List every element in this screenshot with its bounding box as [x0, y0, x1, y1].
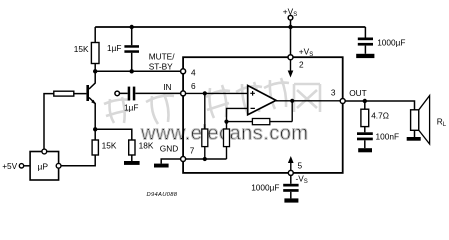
svg-text:OUT: OUT	[349, 88, 367, 98]
pin 5 supply arrow	[290, 162, 292, 170]
junction dot bias resistor	[203, 91, 207, 95]
pin 3	[340, 99, 345, 104]
junction dot rail/+Vs	[288, 25, 292, 29]
transistor Q (mute driver, NPN)	[86, 71, 95, 129]
junction dot mute wire / 15K / collector	[93, 69, 97, 73]
resistor 15K (emitter)	[92, 129, 117, 155]
+5V input terminal	[2, 161, 23, 171]
resistor 4.7ohm (zobel)	[361, 101, 389, 127]
ground (speaker)	[407, 137, 421, 141]
svg-text:7: 7	[190, 146, 195, 156]
svg-text:18K: 18K	[139, 140, 154, 150]
svg-text:15K: 15K	[102, 140, 117, 150]
ground (zobel)	[358, 148, 372, 152]
svg-text:5: 5	[298, 161, 303, 171]
pin 6	[181, 91, 186, 96]
svg-text:ST-BY: ST-BY	[149, 62, 173, 72]
svg-text:GND: GND	[160, 143, 178, 153]
svg-text:µP: µP	[38, 161, 49, 171]
wire pin 7 to ground	[161, 159, 180, 164]
junction dot mute wire / 1uF	[130, 69, 134, 73]
wire uP out to 15K bottom	[61, 155, 95, 166]
svg-text:100nF: 100nF	[376, 131, 400, 141]
resistor internal (feedback to ground)	[224, 122, 230, 159]
capacitor 1000uF (+Vs rail)	[358, 27, 406, 54]
ground (GND pin)	[154, 164, 169, 168]
ground (18K)	[124, 161, 140, 165]
op-amp triangle	[248, 86, 276, 115]
ground (-Vs cap)	[284, 198, 298, 202]
pin 4	[181, 69, 186, 74]
svg-text:6: 6	[191, 81, 196, 91]
wire +5V to uP	[24, 165, 30, 167]
ground (+Vs cap)	[356, 54, 374, 58]
resistor (base, unlabeled)	[44, 91, 86, 149]
pin 2	[288, 55, 293, 60]
resistor 15K (mute pull-up)	[74, 27, 99, 71]
microprocessor uP box	[30, 149, 61, 180]
wire +Vs terminal down to rail and pin 2	[290, 20, 292, 55]
wire emitter junction to 18K	[95, 129, 132, 140]
svg-text:RL: RL	[437, 116, 447, 128]
junction dot OUT/zobel	[363, 99, 367, 103]
watermark ghost glyphs	[104, 78, 320, 124]
capacitor 100nF (zobel)	[357, 127, 399, 149]
svg-text:MUTE/: MUTE/	[149, 51, 176, 61]
capacitor 1000uF (-Vs, pin 5)	[251, 175, 298, 198]
svg-text:+VS: +VS	[283, 7, 297, 19]
svg-text:+VS: +VS	[299, 46, 313, 58]
svg-text:3: 3	[331, 88, 336, 98]
svg-text:1000µF: 1000µF	[251, 182, 279, 192]
+Vs supply terminal	[283, 7, 297, 21]
resistor internal (bias, pin6 to pin7)	[202, 93, 208, 159]
svg-text:1µF: 1µF	[124, 102, 138, 112]
wire pin 6 internal to op-amp + input	[186, 92, 248, 94]
svg-text:1000µF: 1000µF	[377, 37, 405, 47]
top +Vs supply rail (wire)	[95, 26, 365, 28]
junction dot pin7/bias	[203, 157, 207, 161]
pin 5	[288, 170, 293, 175]
wire op-amp output to pin 3	[276, 100, 340, 102]
svg-text:4: 4	[191, 68, 196, 78]
pin 2 supply arrow	[290, 60, 292, 71]
wire MUTE/ST-BY to pin 4	[95, 70, 181, 72]
resistor internal (feedback)	[227, 119, 293, 125]
junction dot feedback node	[224, 120, 228, 124]
IC amplifier box	[183, 57, 343, 173]
watermark www.elecans.com	[140, 123, 309, 145]
svg-text:4.7Ω: 4.7Ω	[371, 111, 389, 121]
pin 7	[181, 157, 186, 162]
svg-text:D94AU088: D94AU088	[147, 192, 178, 198]
svg-text:IN: IN	[163, 82, 171, 92]
svg-text:2: 2	[299, 59, 304, 69]
capacitor 1uF (input coupling)	[120, 87, 181, 113]
junction dot rail/1uF	[130, 25, 134, 29]
wire pin 7 internal	[186, 158, 227, 160]
speaker RL	[411, 96, 447, 144]
svg-text:-VS: -VS	[296, 174, 308, 186]
input terminal IN	[115, 91, 120, 96]
svg-text:15K: 15K	[74, 44, 89, 54]
svg-text:1µF: 1µF	[107, 43, 121, 53]
junction dot emitter/15K/18K	[93, 127, 97, 131]
svg-text:+5V: +5V	[2, 161, 17, 171]
junction dot output/feedback	[290, 99, 294, 103]
resistor 18K	[129, 140, 154, 161]
wire pin 3 to speaker	[345, 101, 414, 110]
capacitor 1uF (mute)	[107, 27, 139, 71]
wire feedback up to output	[291, 101, 293, 122]
wire inverting input	[227, 108, 248, 121]
